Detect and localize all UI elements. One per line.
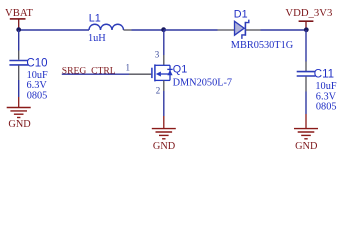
wire VBAT junction down to C10 [18,30,20,51]
pin C11 bottom [305,77,307,92]
svg-text:L1: L1 [89,13,101,25]
svg-text:C11: C11 [314,69,334,81]
wire C11 to right ground [305,92,307,115]
pin C10 bottom [18,66,20,81]
transistor Q1 (N-channel MOSFET with body diode) [152,64,173,81]
pin L1 right [124,29,132,31]
svg-text:GND: GND [8,119,31,130]
ground GND left [7,97,32,130]
power port VDD_3V3 [285,7,332,30]
wire VDD junction down to C11 [305,30,307,62]
wire source to middle ground [163,91,165,116]
svg-text:GND: GND [295,141,318,152]
svg-text:2: 2 [156,86,161,96]
power port VBAT [5,7,33,30]
svg-text:0805: 0805 [316,102,337,113]
svg-text:D1: D1 [234,9,248,21]
wire drain junction to D1 [164,29,218,31]
pin C11 top [305,62,307,72]
wire SREG_CTRL to gate pin [62,73,129,75]
pin Q1 source [163,80,165,91]
svg-text:VDD_3V3: VDD_3V3 [285,7,332,19]
diode D1 (Schottky) [235,20,249,39]
svg-text:1uH: 1uH [88,33,106,44]
pin D1 cathode [246,29,261,31]
ground GND right [294,114,318,152]
wire VBAT junction to L1 [19,29,89,31]
svg-text:Q1: Q1 [173,63,187,75]
svg-text:VBAT: VBAT [5,7,33,19]
pin D1 anode [218,29,235,31]
pin C10 top [18,51,20,60]
node junction VDD/C11 [304,27,309,32]
node junction VBAT/C10 [16,27,21,32]
svg-text:3: 3 [155,50,160,60]
inductor L1 [89,24,124,30]
svg-text:0805: 0805 [27,90,48,101]
capacitor C11 [297,72,316,76]
svg-text:1: 1 [126,63,131,73]
capacitor C10 [9,61,28,65]
svg-text:GND: GND [153,141,176,152]
node junction Q1 drain [161,27,166,32]
wire drain junction down to Q1 [163,30,165,55]
pin Q1 drain [163,55,165,65]
ground GND middle [152,116,176,152]
pin Q1 gate [129,73,151,75]
wire C10 to left ground [18,80,20,97]
svg-text:MBR0530T1G: MBR0530T1G [231,40,294,51]
wire D1 to VDD junction [261,29,307,31]
svg-text:DMN2050L-7: DMN2050L-7 [173,78,233,89]
svg-text:C10: C10 [26,58,47,70]
wire L1 to drain junction [132,29,164,31]
